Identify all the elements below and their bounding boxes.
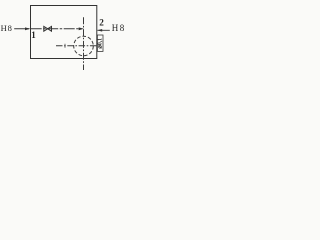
svg-text:H8: H8 <box>1 23 13 33</box>
svg-text:⌀0,1: ⌀0,1 <box>98 38 104 49</box>
svg-text:1: 1 <box>31 30 36 40</box>
svg-text:H8: H8 <box>112 23 126 33</box>
svg-text:2: 2 <box>99 18 104 28</box>
